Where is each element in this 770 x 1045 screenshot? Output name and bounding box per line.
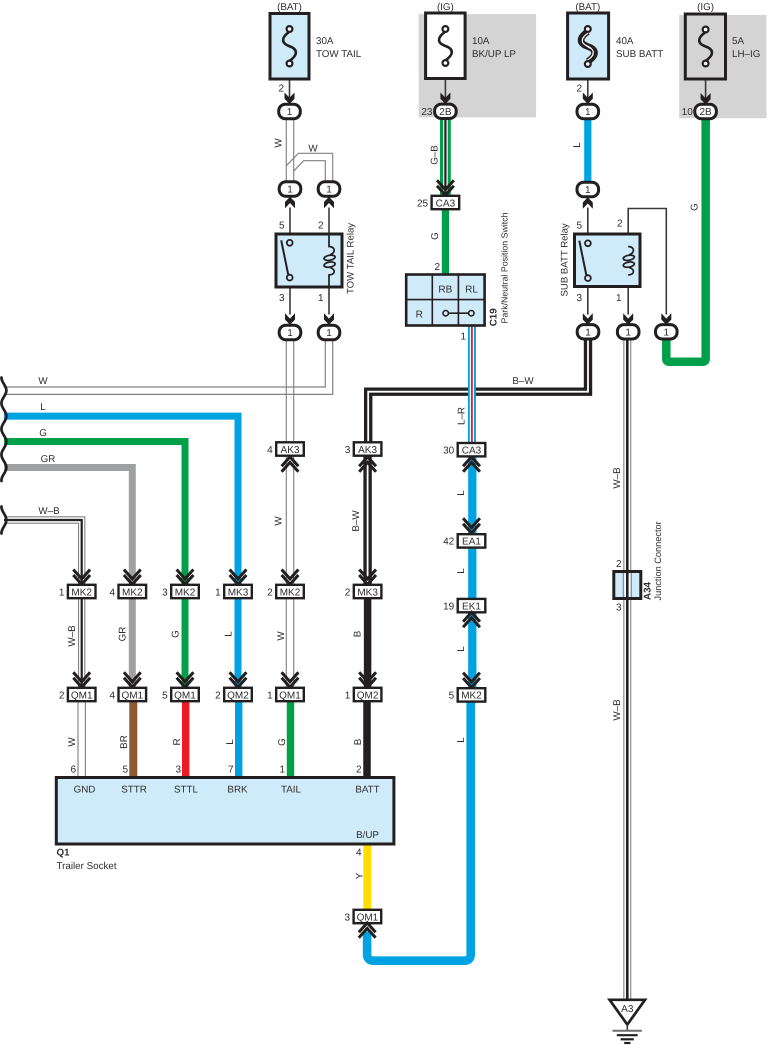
connector 1 MK2 <box>73 570 90 579</box>
wire SUB BATT relay pin 1 <box>627 275 629 315</box>
connector 4 AK3 <box>282 462 299 471</box>
svg-text:MK3: MK3 <box>228 587 249 598</box>
connector 2 QM2 <box>230 672 247 681</box>
svg-text:AK3: AK3 <box>281 445 300 456</box>
connector 19 EK1 <box>458 599 486 612</box>
wire SUB BATT relay pin 3 <box>587 281 589 315</box>
svg-text:W–B: W–B <box>67 625 78 647</box>
svg-text:Q1: Q1 <box>57 848 71 859</box>
svg-text:QM1: QM1 <box>279 690 301 701</box>
wire L (left edge horizontal) <box>4 416 238 584</box>
svg-text:4: 4 <box>267 445 273 456</box>
svg-text:BR: BR <box>119 735 130 749</box>
wire L (1 MK3 to 2 QM2) <box>235 598 242 688</box>
ground symbol <box>626 1025 628 1031</box>
svg-text:2: 2 <box>318 221 324 232</box>
svg-text:3: 3 <box>576 293 582 304</box>
svg-text:L: L <box>456 568 467 574</box>
svg-text:5: 5 <box>279 221 285 232</box>
connector 2 QM1 <box>73 672 90 681</box>
svg-text:SUB BATT Relay: SUB BATT Relay <box>560 223 571 296</box>
wire L (5 MK2 loop to 3 QM1) <box>367 701 471 961</box>
wire W-B (1 MK2 to 2 QM1) <box>78 598 85 688</box>
svg-text:40A: 40A <box>616 36 634 47</box>
svg-text:6: 6 <box>70 765 76 776</box>
connector 1 QM1 <box>282 672 299 681</box>
svg-text:1: 1 <box>318 293 324 304</box>
wire from fuse 5A to connector <box>705 67 707 104</box>
svg-text:STTL: STTL <box>174 785 199 796</box>
connector 1 QM2 <box>359 672 376 681</box>
svg-text:L–R: L–R <box>457 407 468 425</box>
svg-text:1: 1 <box>585 107 591 118</box>
arrow into connector <box>583 93 593 105</box>
svg-text:MK2: MK2 <box>122 587 143 598</box>
wire TOW TAIL relay pin 2 <box>328 208 330 235</box>
svg-text:W: W <box>67 737 78 747</box>
connector circle 1 (pin 3 side) <box>279 325 301 339</box>
svg-text:RB: RB <box>438 285 452 296</box>
wire G-B (fuse 10A BK/UP LP to 25 CA3) <box>440 118 451 197</box>
svg-text:QM2: QM2 <box>357 690 379 701</box>
svg-text:MK2: MK2 <box>280 587 301 598</box>
svg-text:L: L <box>456 737 467 743</box>
svg-text:QM1: QM1 <box>121 690 143 701</box>
svg-text:G: G <box>690 203 701 211</box>
svg-text:3: 3 <box>279 293 285 304</box>
wire TOW TAIL relay pin 3 <box>289 281 291 315</box>
svg-text:2: 2 <box>434 262 440 273</box>
svg-text:QM2: QM2 <box>227 690 249 701</box>
wire R (5 QM1 to trailer socket pin 3) <box>182 701 189 778</box>
wire GR (left edge horizontal) <box>4 468 132 585</box>
svg-text:W–B: W–B <box>612 699 623 721</box>
svg-text:1: 1 <box>460 332 466 343</box>
wire L (42 EA1 to 19 EK1) <box>468 548 476 600</box>
wire B (2 MK3 to 1 QM2) <box>364 598 372 688</box>
svg-text:EA1: EA1 <box>462 537 481 548</box>
wire SUB BATT relay pin 5 <box>587 208 589 241</box>
svg-text:CA3: CA3 <box>436 198 456 209</box>
connector circle 2B <box>435 104 457 118</box>
svg-text:1: 1 <box>326 185 332 196</box>
svg-text:5: 5 <box>122 765 128 776</box>
connector 42 EA1 <box>463 518 480 527</box>
A34 junction connector box <box>614 572 641 599</box>
wire G (fuse 5A LH-IG to SUB BATT relay pin 2 connector) <box>666 118 705 362</box>
svg-text:5: 5 <box>449 691 455 702</box>
svg-text:2: 2 <box>267 587 273 598</box>
svg-text:2B: 2B <box>699 107 712 118</box>
svg-text:R: R <box>416 310 423 321</box>
svg-text:1: 1 <box>616 293 622 304</box>
svg-text:7: 7 <box>228 765 234 776</box>
svg-text:BK/UP LP: BK/UP LP <box>472 49 516 60</box>
svg-text:W–B: W–B <box>38 506 60 517</box>
svg-text:TOW TAIL Relay: TOW TAIL Relay <box>346 223 357 294</box>
ground A3 <box>610 1000 645 1025</box>
svg-text:AK3: AK3 <box>358 445 377 456</box>
svg-text:B–W: B–W <box>351 510 362 532</box>
connector circle 1 (SUB BATT relay pin 5 side) <box>577 182 599 196</box>
wire BR (4 QM1 to trailer socket pin 5) <box>129 701 137 778</box>
svg-text:2: 2 <box>345 587 351 598</box>
svg-text:4: 4 <box>109 690 115 701</box>
svg-text:A34: A34 <box>643 581 654 600</box>
connector 3 AK3 <box>359 462 376 471</box>
svg-text:1: 1 <box>287 328 293 339</box>
arrow up into circle (pin 5) <box>285 197 295 209</box>
svg-text:25: 25 <box>417 198 429 209</box>
svg-text:GND: GND <box>74 785 96 796</box>
svg-text:10: 10 <box>682 107 694 118</box>
wire G (25 CA3 to C19 pin 2) <box>442 209 449 275</box>
C19 switch contacts <box>446 312 472 314</box>
svg-text:1: 1 <box>625 327 631 338</box>
wire W-B (left edge horizontal) <box>4 520 82 585</box>
svg-text:MK2: MK2 <box>71 587 92 598</box>
svg-text:3: 3 <box>345 445 351 456</box>
svg-text:1: 1 <box>59 587 65 598</box>
svg-text:A3: A3 <box>621 1004 634 1015</box>
wire GR (4 MK2 to 4 QM1) <box>129 598 136 688</box>
svg-text:L: L <box>572 142 583 148</box>
svg-text:G: G <box>39 428 47 439</box>
svg-text:1: 1 <box>215 587 221 598</box>
svg-text:(BAT): (BAT) <box>277 2 302 13</box>
connector circle 1 (pin 1 side) <box>617 325 639 339</box>
wire W (2 MK2 to 1 QM1) <box>285 598 287 688</box>
svg-text:2: 2 <box>617 219 623 230</box>
wire L (30 CA3 to 42 EA1) <box>468 456 476 535</box>
wire L (19 EK1 to 5 MK2) <box>468 612 476 689</box>
connector circle 1 (pin 2 side) <box>656 325 678 339</box>
svg-text:W: W <box>274 138 285 148</box>
svg-text:5A: 5A <box>732 36 744 47</box>
wire B (1 QM2 to trailer socket pin 2) <box>363 701 371 778</box>
wire from fuse 30A to connector <box>289 67 291 104</box>
svg-text:L: L <box>456 490 467 496</box>
arrow into connector <box>285 93 295 105</box>
arrow down (pin 3) <box>583 313 593 325</box>
svg-text:GR: GR <box>41 454 56 465</box>
svg-text:GR: GR <box>118 627 129 642</box>
svg-text:4: 4 <box>109 587 115 598</box>
svg-text:(IG): (IG) <box>697 2 714 13</box>
svg-text:STTR: STTR <box>121 785 147 796</box>
wire L (2 QM2 to trailer socket pin 7) <box>235 701 242 778</box>
svg-text:4: 4 <box>356 848 362 859</box>
svg-text:1: 1 <box>345 690 351 701</box>
svg-text:BRK: BRK <box>227 785 248 796</box>
connector 5 QM1 <box>177 672 194 681</box>
wire TOW TAIL relay pin 5 <box>289 208 291 241</box>
svg-text:2B: 2B <box>439 107 452 118</box>
svg-text:Trailer Socket: Trailer Socket <box>57 861 117 872</box>
connector circle 1 (relay pin 5 side) <box>279 182 301 196</box>
svg-text:Junction Connector: Junction Connector <box>653 521 663 600</box>
wire W (4 AK3 to 2 MK2) <box>285 456 287 585</box>
relay switch contacts <box>281 240 288 274</box>
TOW TAIL relay box <box>276 234 342 287</box>
fuse block panel (IG, LH-IG) <box>679 15 766 118</box>
wire W (branch to TOW TAIL relay pin 2 connector) <box>286 153 333 181</box>
arrow down (pin 1) <box>324 313 334 325</box>
connector circle 1 (pin 3 side) <box>577 325 599 339</box>
trailer socket Q1 box <box>56 778 394 845</box>
svg-text:LH–IG: LH–IG <box>732 49 760 60</box>
svg-text:5: 5 <box>162 690 168 701</box>
wire Y (trailer socket B/UP pin 4 to 3 QM1) <box>363 844 371 910</box>
svg-text:1: 1 <box>287 107 293 118</box>
svg-text:2: 2 <box>59 690 65 701</box>
svg-text:42: 42 <box>443 537 455 548</box>
svg-text:MK2: MK2 <box>461 691 482 702</box>
wire B-W (SUB BATT relay pin 3 to 3 AK3) <box>368 338 588 443</box>
connector 5 MK2 <box>463 673 480 682</box>
svg-text:1: 1 <box>326 328 332 339</box>
arrow into connector 2B <box>440 93 450 105</box>
svg-text:G: G <box>277 738 288 746</box>
connector 1 MK3 <box>230 570 247 579</box>
C19 Park/Neutral Position Switch box <box>406 275 484 326</box>
svg-text:3: 3 <box>345 912 351 923</box>
svg-text:3: 3 <box>616 603 622 614</box>
connector 4 MK2 <box>124 570 141 579</box>
svg-text:G: G <box>430 232 441 240</box>
svg-text:W: W <box>308 144 318 155</box>
wire break symbol (W-B) <box>1 507 6 534</box>
wire W (left edge horizontal to TOW TAIL relay pin 1 branch) <box>4 340 326 387</box>
connector circle 1 (pin 1 side) <box>318 325 340 339</box>
wire G (1 QM1 to trailer socket pin 1) <box>287 701 294 778</box>
svg-text:BATT: BATT <box>355 785 379 796</box>
svg-text:2: 2 <box>576 84 582 95</box>
svg-text:30: 30 <box>443 446 455 457</box>
wire G (left edge horizontal) <box>4 442 185 585</box>
svg-text:CA3: CA3 <box>462 446 482 457</box>
svg-text:QM1: QM1 <box>71 690 93 701</box>
wire TOW TAIL relay pin 1 <box>328 287 330 315</box>
relay coil <box>329 234 334 255</box>
svg-text:(BAT): (BAT) <box>575 2 600 13</box>
wire G (3 MK2 to 5 QM1) <box>182 598 189 688</box>
svg-text:C19: C19 <box>489 308 500 327</box>
svg-text:W–B: W–B <box>612 467 623 489</box>
relay switch contacts <box>579 241 586 275</box>
wire W-B (SUB BATT relay pin 1 to A34 junction connector) <box>623 338 631 572</box>
wire L-R (C19 pin 1 to 30 CA3) <box>468 325 476 443</box>
connector 4 QM1 <box>124 672 141 681</box>
wire B-W (3 AK3 to 2 MK3) <box>363 456 371 585</box>
fuse block panel (IG, BK/UP LP) <box>419 14 536 117</box>
connector circle 1 (relay pin 2 side) <box>318 182 340 196</box>
svg-text:1: 1 <box>279 765 285 776</box>
arrow up into circle (pin 2) <box>324 197 334 209</box>
svg-text:B: B <box>353 630 364 637</box>
svg-text:TOW TAIL: TOW TAIL <box>316 49 362 60</box>
svg-text:SUB BATT: SUB BATT <box>616 49 663 60</box>
svg-text:W: W <box>38 376 48 387</box>
relay coil <box>628 247 633 255</box>
svg-text:G–B: G–B <box>430 145 441 165</box>
wire L (fuse 40A SUB BATT to relay pin 5 connector) <box>584 119 591 183</box>
svg-text:2: 2 <box>616 559 622 570</box>
connector 30 CA3 <box>463 462 480 471</box>
wire from fuse 10A to connector <box>444 66 446 103</box>
connector 2 MK2 <box>282 570 299 579</box>
svg-text:L: L <box>40 402 46 413</box>
svg-text:30A: 30A <box>316 36 334 47</box>
svg-text:W: W <box>276 631 287 641</box>
connector 25 CA3 <box>432 196 460 209</box>
svg-text:19: 19 <box>443 601 455 612</box>
wire W (fuse 30A to TOW TAIL relay pin 5 connector) <box>285 119 287 183</box>
wire SUB BATT relay pin 2 to junction connector <box>628 209 666 315</box>
svg-text:MK2: MK2 <box>175 587 196 598</box>
svg-text:(IG): (IG) <box>437 2 454 13</box>
svg-text:B: B <box>353 738 364 745</box>
svg-text:L: L <box>456 646 467 652</box>
connector circle 1 (TOW TAIL feed) <box>279 104 301 118</box>
SUB BATT relay box <box>575 234 641 287</box>
connector circle 1 (SUB BATT feed) <box>577 104 599 118</box>
svg-text:1: 1 <box>287 185 293 196</box>
svg-text:B/UP: B/UP <box>356 830 379 841</box>
svg-text:23: 23 <box>421 107 433 118</box>
svg-text:G: G <box>171 630 182 638</box>
svg-text:1: 1 <box>585 327 591 338</box>
svg-text:MK3: MK3 <box>357 587 378 598</box>
svg-text:QM1: QM1 <box>174 690 196 701</box>
wire break symbol (W, L, G, GR) <box>1 378 6 482</box>
svg-text:Park/Neutral Position Switch: Park/Neutral Position Switch <box>500 212 510 323</box>
connector 3 QM1 <box>354 910 382 923</box>
wire W-B (A34 junction connector to ground A3) <box>623 598 631 1000</box>
svg-text:L: L <box>225 739 236 745</box>
arrow down (pin 1) <box>623 313 633 325</box>
svg-text:10A: 10A <box>472 36 490 47</box>
arrow down (pin 3) <box>285 313 295 325</box>
svg-text:L: L <box>224 631 235 637</box>
svg-text:5: 5 <box>576 221 582 232</box>
wire W (TOW TAIL relay pin 3 to 4 AK3) <box>285 340 287 443</box>
svg-text:2: 2 <box>356 765 362 776</box>
svg-text:R: R <box>172 738 183 745</box>
connector circle 2B (LH-IG) <box>695 104 717 118</box>
chevron into 25 CA3 <box>437 180 454 189</box>
arrow up into circle <box>583 197 593 209</box>
svg-text:TAIL: TAIL <box>281 785 302 796</box>
svg-text:B–W: B–W <box>512 376 534 387</box>
svg-text:1: 1 <box>664 327 670 338</box>
wire W (2 QM1 to trailer socket pin 6) <box>77 701 79 778</box>
connector 3 MK2 <box>177 570 194 579</box>
connector 2 MK3 <box>359 570 376 579</box>
svg-text:Y: Y <box>355 872 366 879</box>
svg-text:1: 1 <box>267 690 273 701</box>
svg-text:3: 3 <box>162 587 168 598</box>
arrow into connector 2B <box>701 93 711 105</box>
svg-text:W: W <box>274 516 285 526</box>
svg-text:2: 2 <box>278 84 284 95</box>
svg-text:1: 1 <box>585 185 591 196</box>
svg-text:3: 3 <box>175 765 181 776</box>
svg-text:2: 2 <box>215 690 221 701</box>
wire from fuse 40A to connector <box>587 67 589 104</box>
arrow down (pin 2 circuit) <box>661 313 671 325</box>
svg-text:RL: RL <box>465 285 478 296</box>
